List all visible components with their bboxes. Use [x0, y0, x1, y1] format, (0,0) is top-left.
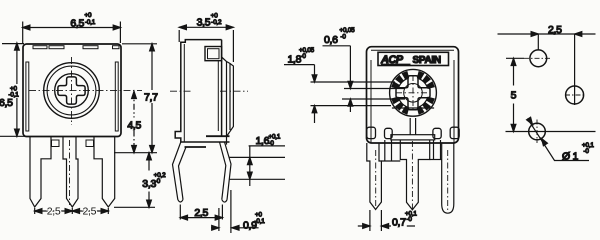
svg-text:-0,1: -0,1 — [85, 19, 96, 26]
svg-text:SPAIN: SPAIN — [413, 55, 441, 66]
svg-text:-0: -0 — [584, 148, 590, 155]
svg-text:5: 5 — [511, 90, 517, 102]
svg-text:-0,1: -0,1 — [255, 218, 266, 225]
svg-text:2,5: 2,5 — [47, 206, 61, 218]
svg-text:0,6: 0,6 — [324, 34, 338, 46]
svg-text:2,5: 2,5 — [548, 24, 562, 36]
svg-text:-0,2: -0,2 — [211, 19, 222, 26]
svg-text:-0,1: -0,1 — [9, 92, 20, 99]
svg-text:-0: -0 — [341, 34, 347, 41]
svg-text:2,5: 2,5 — [194, 207, 208, 219]
svg-text:+0: +0 — [85, 12, 92, 19]
svg-text:-0: -0 — [269, 140, 275, 147]
svg-text:4,5: 4,5 — [127, 120, 141, 132]
svg-text:3,5: 3,5 — [197, 16, 211, 28]
svg-text:7,7: 7,7 — [144, 92, 158, 104]
svg-text:-0: -0 — [407, 216, 413, 223]
svg-text:2,5: 2,5 — [83, 206, 97, 218]
svg-text:6,5: 6,5 — [0, 97, 13, 109]
svg-text:-0: -0 — [155, 178, 161, 185]
svg-text:Ø 1: Ø 1 — [562, 151, 578, 163]
svg-text:6,5: 6,5 — [70, 18, 84, 30]
svg-text:0,7: 0,7 — [392, 217, 406, 229]
svg-text:-0: -0 — [301, 53, 307, 60]
